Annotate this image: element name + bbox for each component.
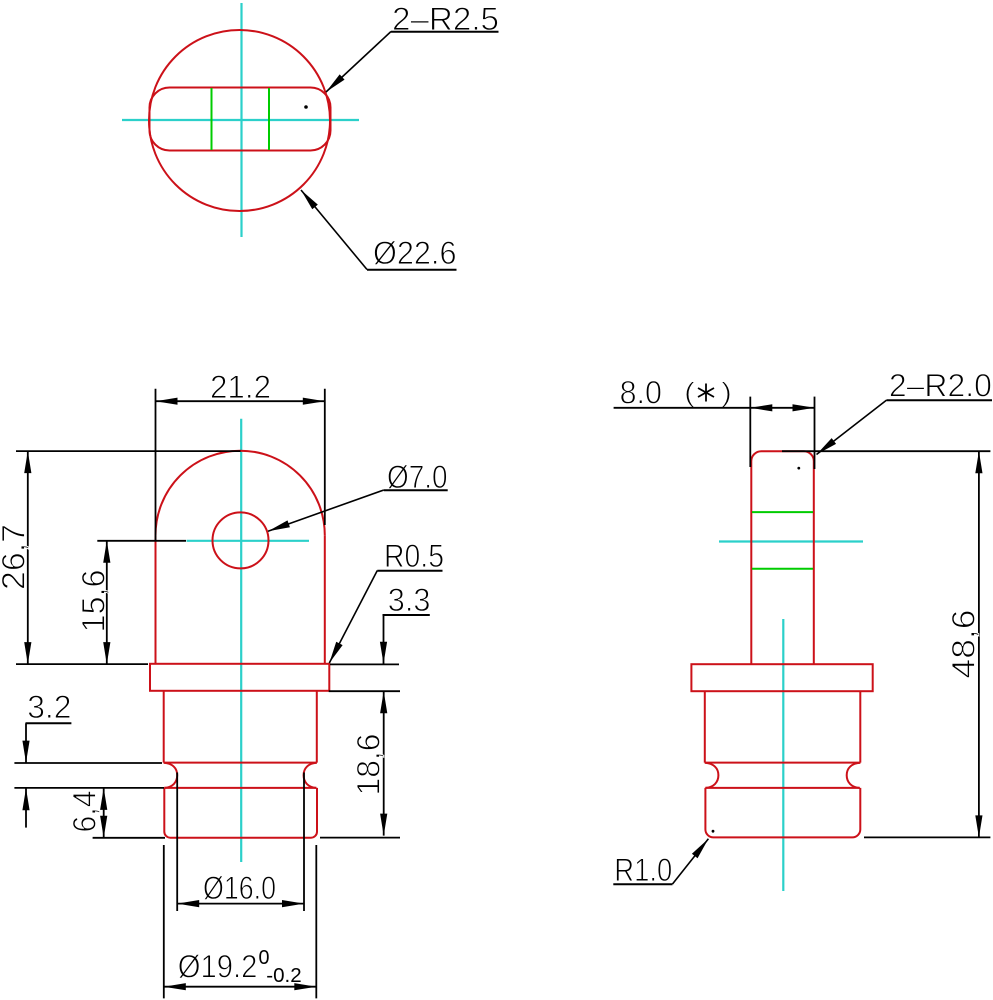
dim Ø16.0 extension line left	[176, 773, 178, 912]
centerline vertical (top view)	[240, 3, 242, 237]
upper body right side (side)	[859, 691, 861, 762]
tab left side	[155, 535, 157, 664]
dim 6.4 bottom extension line	[93, 837, 165, 839]
tab right side	[324, 535, 326, 664]
dim 3.2 lower arrow and tail	[22, 788, 29, 810]
svg-text:18,6: 18,6	[351, 734, 387, 796]
centerline horizontal (side view stem)	[719, 540, 863, 542]
stem outline (side)	[751, 451, 814, 664]
dim 48.6 line	[978, 451, 980, 837]
svg-text:R0.5: R0.5	[384, 538, 444, 574]
upper body left side (front)	[163, 691, 165, 763]
svg-text:3.2: 3.2	[27, 689, 71, 725]
dim Ø16.0 extension line right	[303, 773, 305, 912]
groove bottom edge (side)	[705, 787, 859, 789]
groove left bulge (front)	[164, 763, 178, 788]
dim 18.6 top extension line	[329, 690, 400, 692]
green stem line lower	[752, 568, 813, 570]
dim 21.2 extension line left	[155, 389, 157, 540]
svg-text:-0.2: -0.2	[266, 965, 301, 987]
svg-text:Ø19.2: Ø19.2	[178, 949, 258, 985]
green stem line upper	[752, 511, 813, 513]
groove top edge (side)	[705, 762, 861, 764]
svg-text:): )	[721, 377, 732, 408]
svg-text:Ø16.0: Ø16.0	[203, 870, 276, 906]
svg-text:2–R2.0: 2–R2.0	[889, 368, 992, 404]
upper body right side (front)	[316, 691, 318, 763]
slot rounded rectangle	[150, 88, 331, 151]
dim 26.7 line	[27, 451, 29, 664]
leader for R0.5	[329, 571, 377, 664]
hole circle Ø7.0	[213, 512, 269, 568]
centerline vertical (side view)	[782, 619, 784, 891]
small dot (stem)	[797, 467, 800, 470]
dim Ø19.2 extension line right	[315, 845, 317, 998]
dim Ø19.2 extension line left	[163, 845, 165, 998]
small dot (barb corner)	[712, 830, 715, 833]
svg-text:R1.0: R1.0	[614, 852, 672, 888]
dim 48.6 bottom extension line	[864, 836, 990, 838]
dim 3.3 top extension line	[330, 663, 399, 665]
barb section outline (side)	[705, 788, 860, 838]
leader for 2-R2.5	[326, 32, 391, 93]
groove bottom edge (front)	[164, 787, 316, 789]
centerline horizontal through hole	[187, 540, 309, 542]
svg-text:15,6: 15,6	[75, 570, 111, 633]
dim 48.6 top extension line	[782, 450, 990, 452]
leader for Ø7.0	[268, 490, 384, 531]
groove top extension line (left)	[14, 762, 162, 764]
leader for 2-R2.0	[817, 400, 887, 455]
green hole edge line right	[268, 88, 270, 150]
centerline vertical (front view)	[240, 419, 242, 862]
barb section outline (front)	[164, 788, 317, 838]
groove left bulge (side)	[705, 763, 719, 788]
dim Ø16.0 line	[177, 903, 304, 905]
groove right bulge (side)	[847, 763, 861, 788]
flange rectangle (front)	[150, 664, 329, 691]
dim Ø19.2 line	[164, 986, 316, 988]
dim 8.0 line with underline	[614, 407, 815, 409]
leader for R1.0	[673, 839, 709, 884]
dim 8.0 extension line right	[814, 397, 816, 469]
dim 8.0 extension line left	[749, 397, 751, 467]
svg-text:(: (	[684, 377, 696, 408]
dim 6.4 line	[103, 788, 105, 838]
upper body left side (side)	[704, 691, 706, 762]
groove top edge (front)	[164, 762, 317, 764]
svg-text:6,4: 6,4	[67, 791, 103, 833]
dim 26.7 top extension line	[16, 450, 241, 452]
outer circle Ø22.6	[149, 30, 330, 211]
svg-text:21.2: 21.2	[210, 369, 271, 405]
dim 15.6 top extension line	[97, 540, 186, 542]
dome arc of tab	[156, 451, 325, 536]
dim 21.2 extension line right	[324, 389, 326, 525]
svg-text:26,7: 26,7	[0, 524, 31, 590]
dim 18.6 line	[383, 691, 385, 835]
dim 15.6 line	[106, 541, 108, 664]
svg-text:3.3: 3.3	[388, 582, 431, 618]
svg-text:Ø22.6: Ø22.6	[373, 235, 457, 271]
dim 18.6 bottom extension line	[320, 837, 400, 839]
svg-text:8.0: 8.0	[620, 374, 662, 410]
dim 3.2 vertical line	[25, 723, 27, 762]
dim 21.2 line	[156, 400, 325, 402]
centerline horizontal (top view)	[122, 119, 359, 121]
groove right bulge (front)	[304, 763, 317, 788]
dim 3.3 vertical line	[383, 615, 385, 664]
leader for Ø22.6	[301, 190, 367, 270]
flange rectangle (side)	[691, 664, 872, 691]
groove bottom extension line (left)	[14, 787, 164, 789]
dim 26.7 bottom extension line	[16, 663, 148, 665]
green hole edge line left	[211, 88, 213, 150]
asterisk star	[698, 384, 714, 402]
small dot (top view)	[304, 105, 308, 109]
svg-text:48,6: 48,6	[946, 610, 982, 679]
